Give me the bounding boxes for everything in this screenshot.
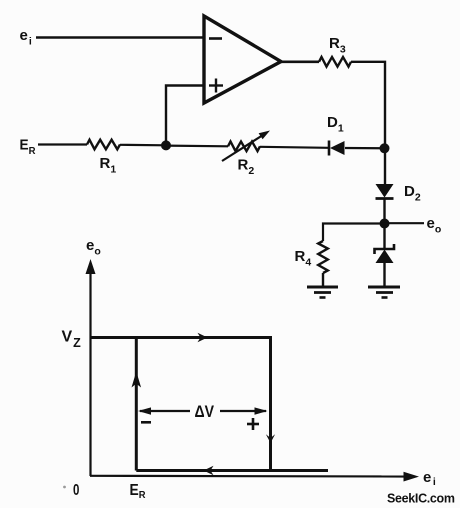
wire: e_i to op-amp inverting input — [36, 36, 204, 39]
hysteresis loop: bottom line — [136, 469, 328, 472]
node A (junction dot) — [161, 140, 171, 150]
arrow right on top line — [198, 333, 208, 343]
y-axis with arrow — [86, 259, 96, 476]
arrow down on right vertical — [266, 434, 275, 443]
wire: R2 to D1 anode — [260, 147, 328, 148]
wire: node C to e_o terminal — [385, 222, 425, 224]
resistor R3 — [319, 57, 351, 67]
wire: node A to R2 — [166, 145, 228, 148]
wire: R1 to node A — [120, 144, 166, 147]
ground (under R4) — [307, 287, 338, 298]
resistor R4 (vertical) — [318, 241, 328, 273]
svg-text:0: 0 — [73, 482, 79, 499]
wire: non-inverting input to node A — [166, 86, 204, 146]
resistor R2 (variable) — [222, 131, 270, 162]
wire: zener to ground — [383, 263, 385, 287]
wire: node C down to zener — [383, 224, 385, 250]
wire: R4 to ground — [322, 273, 324, 287]
svg-text:ΔV: ΔV — [195, 402, 215, 421]
arrow left on bottom line — [204, 466, 214, 475]
x-axis with arrow — [90, 472, 419, 482]
node C (junction dot) — [380, 219, 390, 229]
wire: D1 to node B — [345, 147, 384, 150]
svg-text:SeekIC.com: SeekIC.com — [387, 492, 455, 506]
wire: E_R to R1 — [38, 143, 87, 145]
label plus (right threshold) — [247, 418, 259, 430]
zener diode (cathode bar with bends, triangle points up) — [375, 244, 395, 263]
label minus (left threshold) — [141, 421, 151, 424]
arrow up on left vertical — [132, 372, 142, 388]
hysteresis loop: top line at V_Z — [90, 336, 272, 339]
wire: node C to R4 branch — [323, 224, 385, 242]
node B (junction dot) — [380, 143, 390, 153]
resistor R1 — [87, 140, 120, 150]
diode D2 (points down) — [376, 184, 394, 199]
ground (under zener) — [368, 287, 400, 298]
hysteresis loop: right vertical — [269, 338, 272, 471]
ΔV dimension arrows — [138, 407, 268, 414]
op-amp U1 — [204, 16, 281, 103]
hysteresis loop: left vertical — [135, 338, 138, 471]
wire: D2 to node C — [383, 199, 385, 224]
wire: op-amp output to R3 — [281, 60, 319, 63]
diode D1 (points left) — [329, 141, 345, 156]
wire: R3 to right rail corner, down to D2 — [351, 62, 385, 184]
speck (scan artifact) — [63, 486, 66, 489]
